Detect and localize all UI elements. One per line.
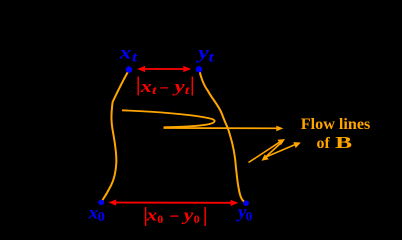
svg-text:x: x <box>119 43 132 63</box>
svg-text:y: y <box>172 77 185 96</box>
svg-text:0: 0 <box>246 209 253 224</box>
svg-text:−: − <box>169 206 179 226</box>
svg-text:of: of <box>317 135 331 152</box>
svg-text:Flow lines: Flow lines <box>301 116 371 133</box>
svg-text:−: − <box>159 78 169 97</box>
svg-text:0: 0 <box>98 210 105 225</box>
svg-text:B: B <box>335 133 352 152</box>
svg-text:x: x <box>145 205 157 224</box>
svg-text:|: | <box>190 72 195 96</box>
svg-text:0: 0 <box>157 212 163 226</box>
svg-text:|: | <box>203 203 208 227</box>
svg-text:x: x <box>140 77 153 96</box>
svg-text:x: x <box>88 203 99 223</box>
svg-text:y: y <box>181 205 194 224</box>
svg-text:0: 0 <box>194 212 200 226</box>
